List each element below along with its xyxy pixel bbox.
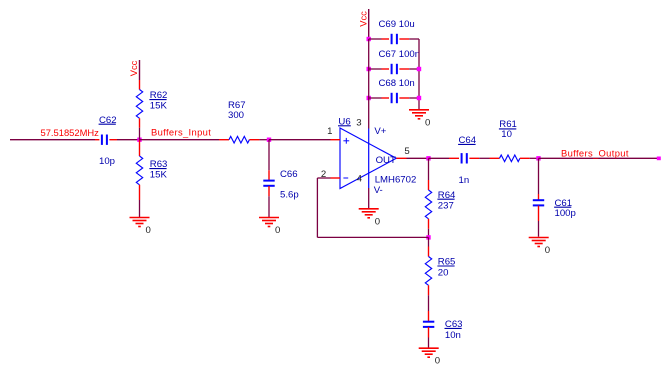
wire [429,157,450,159]
svg-text:300: 300 [228,110,244,121]
wire [268,196,270,217]
svg-text:3: 3 [356,118,361,129]
wire [407,157,429,159]
wire [316,178,318,237]
power Vcc (left) [128,60,140,80]
wire [530,157,539,159]
wire [140,139,220,141]
pin 4 number [357,173,363,184]
svg-text:15K: 15K [150,100,168,111]
svg-text:57.51852MHz: 57.51852MHz [41,127,100,138]
node Vcc-C69 [367,37,371,41]
svg-text:10: 10 [501,129,512,140]
node Buffers_Output junction [536,156,540,160]
wire [259,139,269,141]
svg-text:C67 100n: C67 100n [379,49,421,60]
wire [428,295,430,311]
pin 2 [321,169,340,180]
wire [538,221,540,237]
capacitor C68 [369,78,419,103]
wire [368,39,370,129]
wire [317,177,330,179]
svg-text:1: 1 [327,126,332,137]
svg-text:0: 0 [146,225,151,236]
svg-text:0: 0 [425,117,430,128]
node after R67 [267,138,271,142]
wire [428,158,430,180]
svg-text:C68 10n: C68 10n [379,78,415,89]
svg-text:5: 5 [404,146,409,157]
svg-text:0: 0 [435,356,440,367]
svg-text:LMH6702: LMH6702 [375,175,417,186]
wire [428,338,430,349]
ground [409,110,430,129]
pin 5 [396,146,409,159]
capacitor C69 [369,19,419,44]
svg-text:5.6p: 5.6p [280,189,299,200]
svg-text:237: 237 [438,201,454,212]
node Vcc-C67 [367,67,371,71]
capacitor C66 [263,140,298,201]
wire [538,158,540,194]
svg-text:15K: 15K [150,169,168,180]
net label Buffers_Output [561,148,629,159]
resistor R61 [490,119,530,161]
svg-text:10p: 10p [99,156,115,167]
wire [479,157,489,159]
resistor R63 [136,140,167,200]
wire [10,139,95,141]
node feedback junction [426,235,430,239]
wire [368,188,370,209]
svg-text:C66: C66 [280,169,298,180]
svg-text:0: 0 [545,245,550,256]
node rail-C67 [417,67,421,71]
capacitor C63 [423,311,463,341]
ground [529,238,550,257]
wire [269,139,331,141]
node output junction [426,156,430,160]
wire [428,229,430,238]
capacitor C67 [369,49,420,74]
node Vcc-C68 [367,96,371,100]
wire [418,39,420,110]
resistor R62 [136,80,167,128]
capacitor C62 [95,115,117,167]
ground [419,348,440,367]
resistor R65 [425,247,455,296]
power Vcc (top) [358,9,369,39]
svg-text:100p: 100p [555,208,576,219]
wire [539,157,658,159]
svg-text:Buffers_Input: Buffers_Input [151,127,211,138]
ground [130,218,151,237]
svg-text:0: 0 [275,225,280,236]
svg-text:OUT: OUT [376,155,396,166]
ground [359,209,380,228]
op-amp U6 [338,116,416,196]
svg-text:20: 20 [438,267,449,278]
svg-text:Vcc: Vcc [128,60,139,76]
node Buffers_Input junction [137,138,141,142]
wire [117,139,140,141]
capacitor C61 [533,194,576,221]
svg-text:Vcc: Vcc [358,11,369,27]
pin 3 number [356,118,361,129]
svg-text:C69 10u: C69 10u [379,19,415,30]
pin 1 [327,126,340,140]
wire [428,237,430,246]
svg-text:V-: V- [374,185,383,196]
svg-text:4: 4 [357,173,363,184]
ground [259,218,280,237]
capacitor C64 [449,135,479,186]
resistor R64 [425,180,456,229]
wire [139,128,141,140]
svg-text:1n: 1n [459,175,470,186]
svg-text:0: 0 [375,216,380,227]
net label Buffers_Input [151,127,211,138]
node rail-C68 [417,96,421,100]
resistor R67 [219,100,259,143]
node wire end [657,157,661,161]
svg-text:Buffers_Output: Buffers_Output [561,148,629,159]
wire [139,200,141,218]
svg-text:V+: V+ [374,126,386,137]
net label 57.51852MHz [41,127,100,138]
svg-text:10n: 10n [445,330,461,341]
wire [317,236,428,238]
